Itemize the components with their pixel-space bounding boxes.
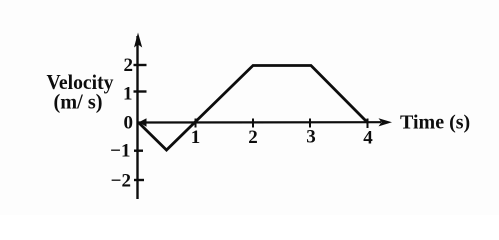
svg-text:2: 2 [248, 127, 258, 148]
x tick 1 [195, 119, 197, 128]
svg-text:−2: −2 [111, 171, 131, 192]
x-axis arrowhead [379, 118, 393, 126]
x-axis line [138, 121, 381, 124]
svg-text:−1: −1 [110, 141, 130, 162]
y-axis line [136, 36, 138, 199]
svg-text:4: 4 [363, 128, 373, 149]
origin left wedge [139, 118, 147, 127]
x tick 3 [309, 119, 311, 128]
y tick +1 [134, 90, 147, 92]
svg-text:0: 0 [124, 113, 134, 134]
x tick 4 [367, 119, 369, 129]
y-axis arrowhead [134, 33, 142, 48]
svg-text:Time (s): Time (s) [400, 112, 470, 134]
svg-text:1: 1 [123, 84, 133, 105]
y tick +2 [134, 64, 147, 66]
x tick 2 [252, 119, 254, 128]
svg-text:3: 3 [306, 127, 316, 148]
svg-text:1: 1 [191, 127, 201, 148]
y tick -1 [134, 149, 143, 151]
velocity curve polyline [139, 66, 368, 151]
svg-text:(m/ s): (m/ s) [54, 90, 103, 114]
svg-text:2: 2 [124, 55, 134, 76]
y tick -2 [134, 179, 144, 181]
